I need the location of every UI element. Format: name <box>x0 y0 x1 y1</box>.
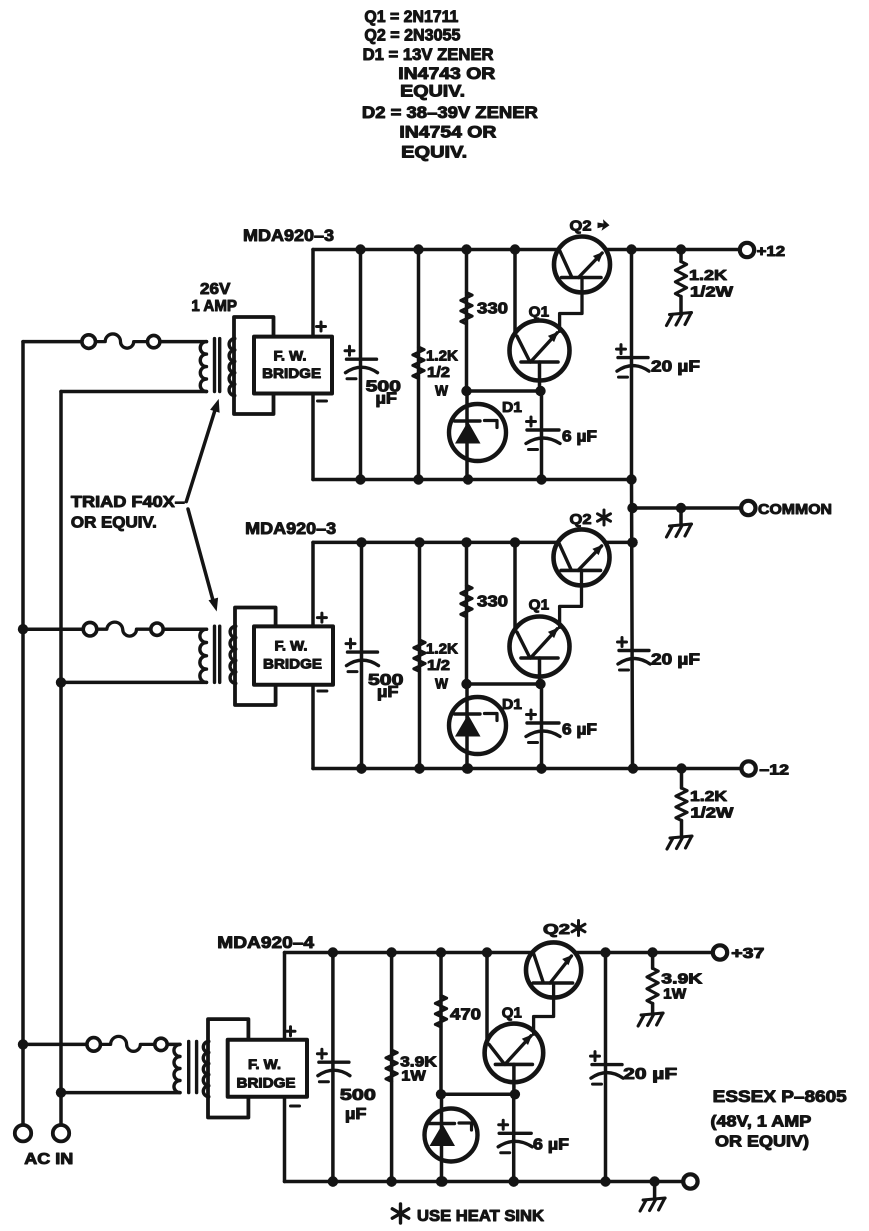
wire T3 primary bottom <box>61 1091 180 1095</box>
capacitor middle 20uF <box>619 649 649 652</box>
wire T1 primary bottom <box>61 390 207 394</box>
bridge rectifier secondary loop (middle) <box>235 608 276 706</box>
arrow to transformer T1 <box>186 407 216 502</box>
resistor R 1.2K 1/2W (below -12) <box>676 788 687 821</box>
wire COMMON rail <box>633 506 742 510</box>
resistor middle series branch wire <box>465 542 469 684</box>
bridge rectifier U1 MDA920-3 box <box>254 337 332 394</box>
ground (bottom right) <box>641 1013 663 1015</box>
node middle botrail-6uF junction <box>536 763 546 773</box>
wire 20uF top branch <box>630 250 634 480</box>
node middle rail-500uF junction <box>356 537 366 547</box>
resistor bottom 3.9K output stub <box>651 953 655 969</box>
wire Q2 top base to Q1 emitter <box>560 278 582 332</box>
resistor bottom shunt <box>386 1050 397 1082</box>
wire Q1 middle base lead <box>538 658 542 684</box>
node bottom botrail-zener junction <box>437 1176 447 1186</box>
AC terminal 2 <box>53 1125 69 1141</box>
svg-text:µF: µF <box>345 1106 367 1123</box>
node A-bot junction <box>18 1039 28 1049</box>
node top rail-1.2K junction <box>676 244 686 254</box>
capacitor bottom 500uF <box>319 1060 349 1063</box>
svg-text:6 µF: 6 µF <box>533 1137 569 1154</box>
node bottom botrail-20uF junction <box>600 1176 610 1186</box>
resistor R 1.2K 1/2W (top right) <box>675 262 686 297</box>
wire top positive rail <box>313 248 558 252</box>
svg-text:26V: 26V <box>200 281 231 298</box>
wire bottom bottom rail <box>285 1180 684 1184</box>
svg-text:1.2K: 1.2K <box>689 267 727 284</box>
node COMMON ground junction <box>676 503 686 513</box>
svg-text:Q1: Q1 <box>529 597 549 614</box>
resistor bottom series branch wire <box>439 953 443 1095</box>
capacitor top 500uF branch wire <box>359 250 363 480</box>
svg-text:Q2: Q2 <box>570 511 592 528</box>
arrow to transformer T2 <box>188 509 214 604</box>
node bottom botrail-6uF junction <box>509 1176 519 1186</box>
svg-text:1W: 1W <box>401 1068 426 1085</box>
transistor Q1 top <box>510 321 570 381</box>
wire T3 primary top <box>23 1043 87 1047</box>
svg-text:IN4743 OR: IN4743 OR <box>398 65 495 83</box>
terminal bottom right <box>683 1174 697 1188</box>
transistor Q2 top <box>554 237 610 293</box>
wire middle zener branch <box>465 684 469 769</box>
node top botrail-zener junction <box>463 474 473 484</box>
AC line A vertical <box>21 342 25 1125</box>
transformer T3 core and secondary winding <box>203 1042 209 1097</box>
node top botrail-500uF junction <box>355 474 365 484</box>
wire middle positive rail <box>313 541 558 545</box>
AC terminal 1 <box>15 1125 31 1141</box>
capacitor middle 500uF <box>348 650 378 653</box>
node top rail-Q1 junction <box>510 244 520 254</box>
node top series-zener junction <box>461 386 471 396</box>
Q2 heatsink asterisk (bottom) <box>577 921 580 936</box>
resistor top shunt <box>413 347 424 379</box>
node A-mid junction <box>18 624 28 634</box>
svg-text:+12: +12 <box>757 244 786 260</box>
svg-text:COMMON: COMMON <box>758 501 832 518</box>
bridge rectifier secondary loop (bottom) <box>208 1019 248 1117</box>
svg-text:W: W <box>435 383 449 400</box>
svg-text:20 µF: 20 µF <box>651 359 700 376</box>
ground (below -12) <box>670 836 692 838</box>
resistor bottom series <box>435 996 446 1028</box>
resistor top series <box>461 293 472 325</box>
transistor Q2 middle <box>554 529 610 585</box>
bridge + mark (middle) <box>317 613 326 622</box>
svg-text:330: 330 <box>477 594 508 611</box>
capacitor top 6uF branch wire <box>540 391 544 480</box>
wire Q1 bottom base lead <box>512 1064 516 1094</box>
svg-text:F. W.: F. W. <box>248 1056 281 1072</box>
node middle rail-Q1 junction <box>510 537 520 547</box>
node middle rail-20uF junction <box>627 537 637 547</box>
svg-text:BRIDGE: BRIDGE <box>262 365 321 381</box>
bridge + mark (top) <box>317 322 326 331</box>
svg-text:1.2K: 1.2K <box>426 641 458 658</box>
node bottom series-zener junction <box>436 1089 446 1099</box>
svg-text:1.2K: 1.2K <box>690 788 727 805</box>
transistor Q1 bottom <box>485 1024 544 1083</box>
resistor top shunt branch wire <box>417 250 421 480</box>
svg-text:MDA920–4: MDA920–4 <box>217 933 314 952</box>
node top botrail-shunt junction <box>413 474 423 484</box>
svg-text:Q2: Q2 <box>570 217 592 234</box>
ground (top right) <box>670 313 692 315</box>
transformer T1 primary winding <box>200 342 206 392</box>
svg-text:OR EQUIV.: OR EQUIV. <box>71 515 157 532</box>
wire fuse F1 to T1 <box>160 340 206 344</box>
Q2 heatsink mark (top) <box>598 219 610 230</box>
heat sink note asterisk <box>399 1204 402 1223</box>
Q2 heatsink asterisk (middle) <box>603 510 606 525</box>
node middle botrail-shunt junction <box>414 763 424 773</box>
wire Q1 top base lead <box>538 362 542 391</box>
node top rail-20uF junction <box>626 244 636 254</box>
svg-text:1/2: 1/2 <box>427 657 450 674</box>
node middle series-zener junction <box>461 679 471 689</box>
node COMMON junction <box>627 503 637 513</box>
capacitor middle 500uF branch wire <box>360 542 364 768</box>
svg-text:1 AMP: 1 AMP <box>191 298 237 315</box>
resistor middle series <box>461 585 472 617</box>
svg-text:+37: +37 <box>731 946 764 962</box>
svg-text:D1: D1 <box>502 696 522 713</box>
svg-text:BRIDGE: BRIDGE <box>263 656 322 672</box>
node middle rail-shunt junction <box>414 537 424 547</box>
transistor Q1 middle <box>510 617 570 677</box>
zener diode top <box>449 404 506 461</box>
resistor top 1.2K output stub <box>679 250 683 262</box>
capacitor top 20uF <box>618 356 648 359</box>
svg-text:OR EQUIV): OR EQUIV) <box>715 1134 809 1151</box>
bridge rectifier U3 MDA920-4 box <box>228 1040 307 1097</box>
svg-text:–12: –12 <box>759 763 789 779</box>
wire bridge output (bottom) <box>283 953 287 1040</box>
svg-text:20 µF: 20 µF <box>651 652 700 669</box>
bridge - mark (bottom) <box>291 1105 300 1108</box>
fuse F1 <box>82 335 96 349</box>
wire bottom zener branch <box>440 1094 444 1181</box>
node bottom botrail-shunt junction <box>386 1176 396 1186</box>
svg-text:USE HEAT SINK: USE HEAT SINK <box>417 1208 544 1225</box>
bridge rectifier U2 MDA920-3 box <box>254 626 333 684</box>
capacitor top 6uF <box>527 428 559 431</box>
capacitor middle 6uF branch wire <box>540 684 544 769</box>
capacitor bottom 6uF branch wire <box>512 1094 516 1181</box>
node bottom rail-shunt junction <box>386 947 396 957</box>
svg-text:µF: µF <box>376 391 398 408</box>
svg-text:1/2W: 1/2W <box>690 284 734 301</box>
capacitor bottom 20uF <box>592 1063 622 1066</box>
node middle botrail-zener junction <box>463 763 473 773</box>
svg-text:1/2: 1/2 <box>427 364 450 381</box>
node top botrail-6uF junction <box>536 474 546 484</box>
terminal +12 <box>740 243 754 257</box>
svg-text:Q2: Q2 <box>543 921 570 938</box>
transformer T2 primary winding <box>200 629 207 682</box>
resistor middle 1.2K stub <box>680 769 684 789</box>
zener diode bottom <box>425 1109 478 1162</box>
wire COMMON ground stub <box>679 508 683 525</box>
wire top base node <box>467 389 540 393</box>
zener diode middle <box>449 697 506 754</box>
node top rail-series junction <box>461 244 471 254</box>
wire fuse F2 to T2 <box>164 627 207 631</box>
fuse F3 <box>87 1038 101 1052</box>
node bottom rail-series junction <box>436 947 446 957</box>
wire bottom ground stub <box>653 1182 657 1199</box>
svg-text:D1 = 13V ZENER: D1 = 13V ZENER <box>363 46 494 64</box>
svg-text:1W: 1W <box>663 986 687 1003</box>
svg-text:ESSEX P–8605: ESSEX P–8605 <box>713 1087 847 1106</box>
node bottom rail-20uF junction <box>600 947 610 957</box>
svg-text:Q1: Q1 <box>502 1005 522 1022</box>
node top emitter-cap junction <box>535 386 545 396</box>
wire bottom positive rail <box>285 951 533 955</box>
svg-text:AC IN: AC IN <box>24 1151 73 1168</box>
bridge rectifier secondary loop (top) <box>234 317 274 414</box>
svg-text:EQUIV.: EQUIV. <box>401 144 467 162</box>
capacitor middle 6uF <box>527 721 559 724</box>
wire middle bottom rail <box>313 767 742 771</box>
transformer T1 core and secondary winding <box>229 339 235 396</box>
svg-text:W: W <box>435 676 449 693</box>
ground (bottom rail) <box>643 1198 665 1200</box>
capacitor bottom 6uF <box>499 1132 531 1135</box>
node bottom rail-500uF junction <box>328 947 338 957</box>
wire top bottom rail <box>313 478 632 482</box>
wire T1 primary top <box>23 340 81 344</box>
svg-text:Q2 = 2N3055: Q2 = 2N3055 <box>364 27 460 45</box>
svg-text:BRIDGE: BRIDGE <box>237 1075 296 1091</box>
node middle rail-vert junction <box>627 537 637 547</box>
bridge + mark (bottom) <box>286 1027 295 1036</box>
svg-text:IN4754 OR: IN4754 OR <box>399 123 496 141</box>
svg-text:330: 330 <box>477 301 508 318</box>
transformer T2 core and secondary winding <box>230 626 236 683</box>
ground (COMMON) <box>670 524 692 526</box>
bridge - mark (top) <box>318 400 327 403</box>
svg-text:6 µF: 6 µF <box>562 429 597 446</box>
svg-text:F. W.: F. W. <box>275 638 308 654</box>
transistor Q2 bottom <box>526 942 581 997</box>
svg-text:F. W.: F. W. <box>274 347 307 363</box>
terminal +37 <box>713 945 727 959</box>
wire top zener branch <box>465 391 469 480</box>
svg-text:MDA920–3: MDA920–3 <box>243 226 334 245</box>
resistor middle shunt branch wire <box>418 542 422 768</box>
svg-text:Q1: Q1 <box>529 304 549 321</box>
fuse F2 <box>83 622 97 636</box>
wire vertical common branch <box>632 480 633 769</box>
resistor bottom shunt branch wire <box>390 953 394 1182</box>
node top botrail corner <box>626 474 636 484</box>
svg-text:500: 500 <box>340 1087 376 1104</box>
transformer T3 primary winding <box>174 1044 180 1092</box>
node bottom botrail junctions <box>328 1176 338 1186</box>
wire T2 primary bottom <box>61 681 207 685</box>
svg-text:EQUIV.: EQUIV. <box>400 83 465 101</box>
wire T2 primary top <box>23 627 83 631</box>
svg-text:20 µF: 20 µF <box>623 1066 677 1083</box>
node B-bot junction <box>56 1087 66 1097</box>
node middle rail-series junction <box>461 537 471 547</box>
node bottom botrail-500uF junction <box>328 1176 338 1186</box>
wire 20uF bottom branch <box>604 953 608 1182</box>
node bottom emitter-cap junction <box>510 1089 520 1099</box>
svg-text:MDA920–3: MDA920–3 <box>245 519 336 538</box>
svg-text:µF: µF <box>377 684 399 701</box>
resistor R 3.9K 1W (bottom right) <box>647 968 658 1003</box>
node bottom rail-Q1 junction <box>482 947 492 957</box>
svg-text:470: 470 <box>450 1007 481 1024</box>
svg-text:(48V, 1 AMP: (48V, 1 AMP <box>711 1114 812 1131</box>
terminal -12 <box>741 761 755 775</box>
node top rail-500uF junction <box>355 244 365 254</box>
resistor middle shunt <box>414 640 425 672</box>
wire bottom base node <box>441 1093 514 1097</box>
node top rail-shunt junction <box>413 244 423 254</box>
svg-text:Q1 = 2N1711: Q1 = 2N1711 <box>364 8 458 26</box>
node bottom rail-3.9K junction <box>647 947 657 957</box>
capacitor top 500uF <box>347 358 377 361</box>
wire bridge output (top) <box>311 250 315 337</box>
wire fuse F3 to T3 <box>168 1043 180 1047</box>
node middle emitter-cap junction <box>535 679 545 689</box>
wire middle base node <box>467 682 540 686</box>
svg-text:D1: D1 <box>502 399 522 416</box>
svg-text:6 µF: 6 µF <box>562 722 597 739</box>
wire Q2 middle base to Q1 emitter <box>560 570 582 627</box>
wire bridge output (middle) <box>311 542 315 626</box>
svg-text:TRIAD F40X–: TRIAD F40X– <box>71 494 185 511</box>
svg-text:D2 = 38–39V ZENER: D2 = 38–39V ZENER <box>362 104 538 122</box>
node B-mid junction <box>56 677 66 687</box>
node middle botrail-500uF junction <box>356 763 366 773</box>
capacitor bottom 500uF branch wire <box>331 953 335 1182</box>
svg-text:1/2W: 1/2W <box>690 805 734 822</box>
wire Q2 bottom base to Q1 emitter <box>534 983 554 1034</box>
terminal COMMON <box>741 501 755 515</box>
node -12 rail junctions <box>356 763 366 773</box>
svg-text:1.2K: 1.2K <box>426 348 458 365</box>
bridge - mark (middle) <box>318 690 327 693</box>
resistor top series branch wire <box>465 250 469 392</box>
AC line B vertical <box>59 392 63 1125</box>
